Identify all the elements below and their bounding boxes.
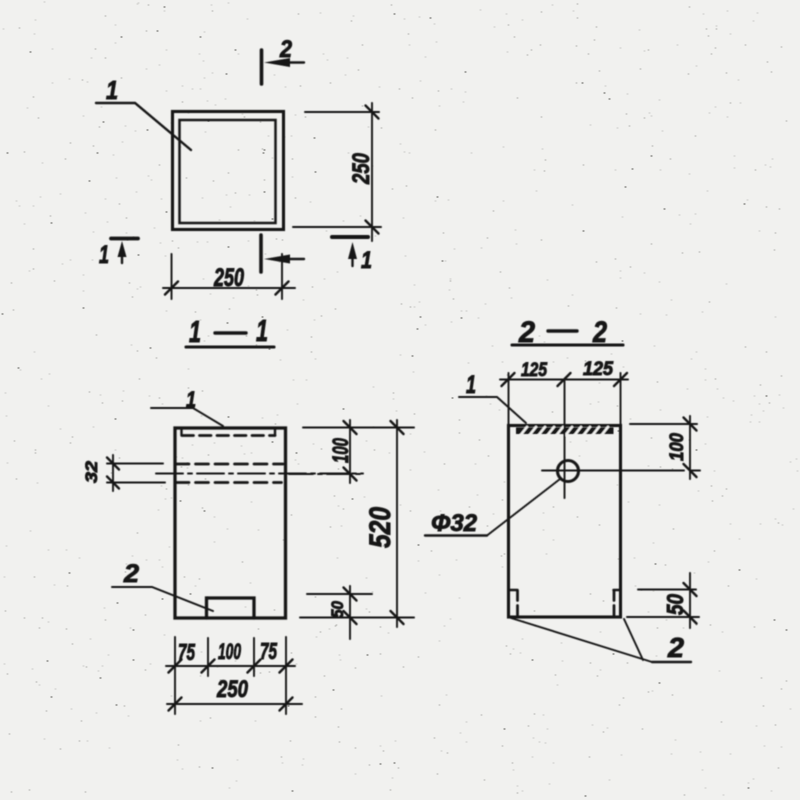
svg-text:250: 250 [216,676,248,703]
svg-text:100: 100 [218,639,241,664]
svg-text:75: 75 [260,638,278,664]
dim 100 line [349,420,351,483]
lower rebar dashed line [176,481,282,484]
dim 125 tick left [502,373,515,386]
svg-text:1: 1 [189,314,201,349]
bottom recess notch outline [207,598,255,618]
dim 250 plan bottom: dimension line [163,287,295,289]
leader from left notch to label 2 [511,618,652,662]
plan outer square [173,112,284,230]
upper rebar dashed line [176,463,283,466]
dim 250 plan bottom: tick right [276,282,289,295]
section 2-2 body outline [509,426,621,618]
dim 50 (2-2) tick bottom [684,611,697,624]
section cut mark 2 bottom: arrowhead [264,255,290,264]
notch right: top tick [614,589,621,592]
dim 250 plan bottom: tick left [165,282,178,295]
section cut mark 1 left: tick [111,237,138,241]
right extension above section [620,373,622,425]
dim 100 (2-2) tick top [684,418,697,431]
svg-text:2: 2 [279,36,292,63]
section cut mark 1 right: tick [332,235,368,239]
tick a [169,660,182,673]
svg-text:50: 50 [328,601,347,618]
section cut mark 2 top: tick [260,50,264,84]
section cut mark 1 left: arrowhead [118,241,127,257]
section cut mark 2 bottom: arrow shaft [284,258,304,260]
svg-text:100: 100 [667,433,688,461]
bottom dims: ext line far right [285,637,287,714]
left extension above section [508,373,510,425]
dim 520 tick bottom [391,611,404,624]
svg-text:250: 250 [348,152,375,184]
bottom dims: ext line mid-left [207,638,209,676]
dim 100 tick top [344,421,357,434]
dim 250 plan right: bottom extension line [293,226,381,228]
recess right edge [274,428,276,436]
section cut mark 1 left: arrow shaft [121,252,123,263]
dim 250 plan right: tick top [366,106,379,119]
dim 50 top extension [307,593,372,595]
section cut mark 2 bottom: tick [259,235,263,272]
svg-text:1: 1 [106,75,118,105]
notch left: top tick [510,589,518,592]
section cut mark 1 right: arrow shaft [351,254,353,266]
centre axis dash-dot line [156,473,363,475]
dim 32 bottom extension [107,482,165,484]
dim 250 plan bottom: right extension line [281,254,283,299]
recess dashed bottom [182,434,275,437]
recess left edge [180,428,182,436]
svg-text:520: 520 [364,507,397,548]
dim 50 (2-2) tick top [684,583,697,596]
dim 32 tick bottom [107,477,119,489]
leader from right notch to label 2 [624,619,643,660]
dim 32 tick top [107,458,119,470]
dim 50 tick top [344,588,357,601]
svg-text:125: 125 [583,359,613,380]
horizontal axis dash [690,470,700,472]
horizontal axis through hole [542,470,684,472]
plan inner square [180,120,276,223]
svg-text:32: 32 [82,460,101,483]
centre axis vertical line [564,381,566,498]
dim 100 (2-2) tick bottom [684,464,697,477]
right dims: top extension line [303,427,414,429]
label 2 underline [652,661,691,663]
centerline extension right dashes [289,473,363,475]
hatch band white slashes [521,427,608,435]
dim 520 line [396,420,398,627]
svg-text:125: 125 [521,360,547,381]
dim 32 top extension [107,463,163,465]
notch left: dashed vertical [516,591,519,616]
tick b [202,660,215,673]
dim 125 tick right [614,373,627,386]
title 1-1 dash [215,331,246,334]
dim 100 tick bottom [344,468,357,481]
svg-text:2: 2 [123,560,139,588]
svg-text:Φ32: Φ32 [431,510,478,537]
bottom dims: ext line far left [174,637,176,714]
dim 250 plan right: top extension line [305,111,379,113]
dim 50 (2-2) bottom extension [627,616,699,618]
svg-text:2: 2 [667,632,684,663]
dim 125 tick centre [558,373,571,386]
dim 100 (2-2) top extension [630,423,697,425]
dim 50 line [349,586,351,639]
dim 250 tick left [169,698,182,711]
svg-text:1: 1 [99,241,109,269]
dim 32 dimension line [112,455,114,491]
bottom dims: ext line mid-right [253,638,255,676]
section cut mark 2 top: arrowhead [264,58,290,67]
dim 250 bottom line [167,703,302,705]
dim 50 (2-2) line [689,573,691,628]
dim 50 (2-2) top extension [638,589,696,591]
section cut mark 1 right: arrowhead [348,242,357,259]
dim 250 plan right: tick bottom [366,221,379,234]
svg-text:1: 1 [256,313,268,348]
svg-text:1: 1 [466,371,476,399]
title 2-2 dash [548,329,577,332]
tick d [280,660,293,673]
dim 100 (2-2) line [689,416,691,479]
dim row 75/100/75 line [166,665,295,667]
svg-text:250: 250 [213,264,244,292]
dim 125+125 dimension line [500,379,628,381]
label phi32 underline [425,534,487,536]
svg-text:50: 50 [662,594,688,615]
svg-text:1: 1 [361,247,372,274]
hatched bearing band [516,428,614,435]
label phi32 leader [487,479,560,536]
leader line label 1 section 2-2 [459,397,526,423]
leader line label 1 section 1-1 [151,408,223,426]
lifting hole circle [558,461,579,482]
tick c [248,660,261,673]
dim 50 tick bottom [344,611,357,624]
title 2-2 underline [512,343,623,346]
title 1-1 underline [186,345,274,348]
dim 250 plan bottom: left extension line [171,254,173,299]
dim 250 plan right: dimension line [371,103,373,241]
svg-text:100: 100 [328,437,353,463]
dim 250 tick right [280,698,293,711]
svg-text:75: 75 [178,639,196,665]
leader line label 1 plan [96,103,191,150]
leader line label 2 section 1-1 [112,587,213,611]
section 1-1 body outline [175,428,286,618]
section cut mark 2 top: arrow shaft [284,61,304,63]
bottom extension line right [300,617,414,619]
dim 520 tick top [391,421,404,434]
notch right: dashed vertical [613,591,616,616]
svg-text:1: 1 [186,387,196,412]
